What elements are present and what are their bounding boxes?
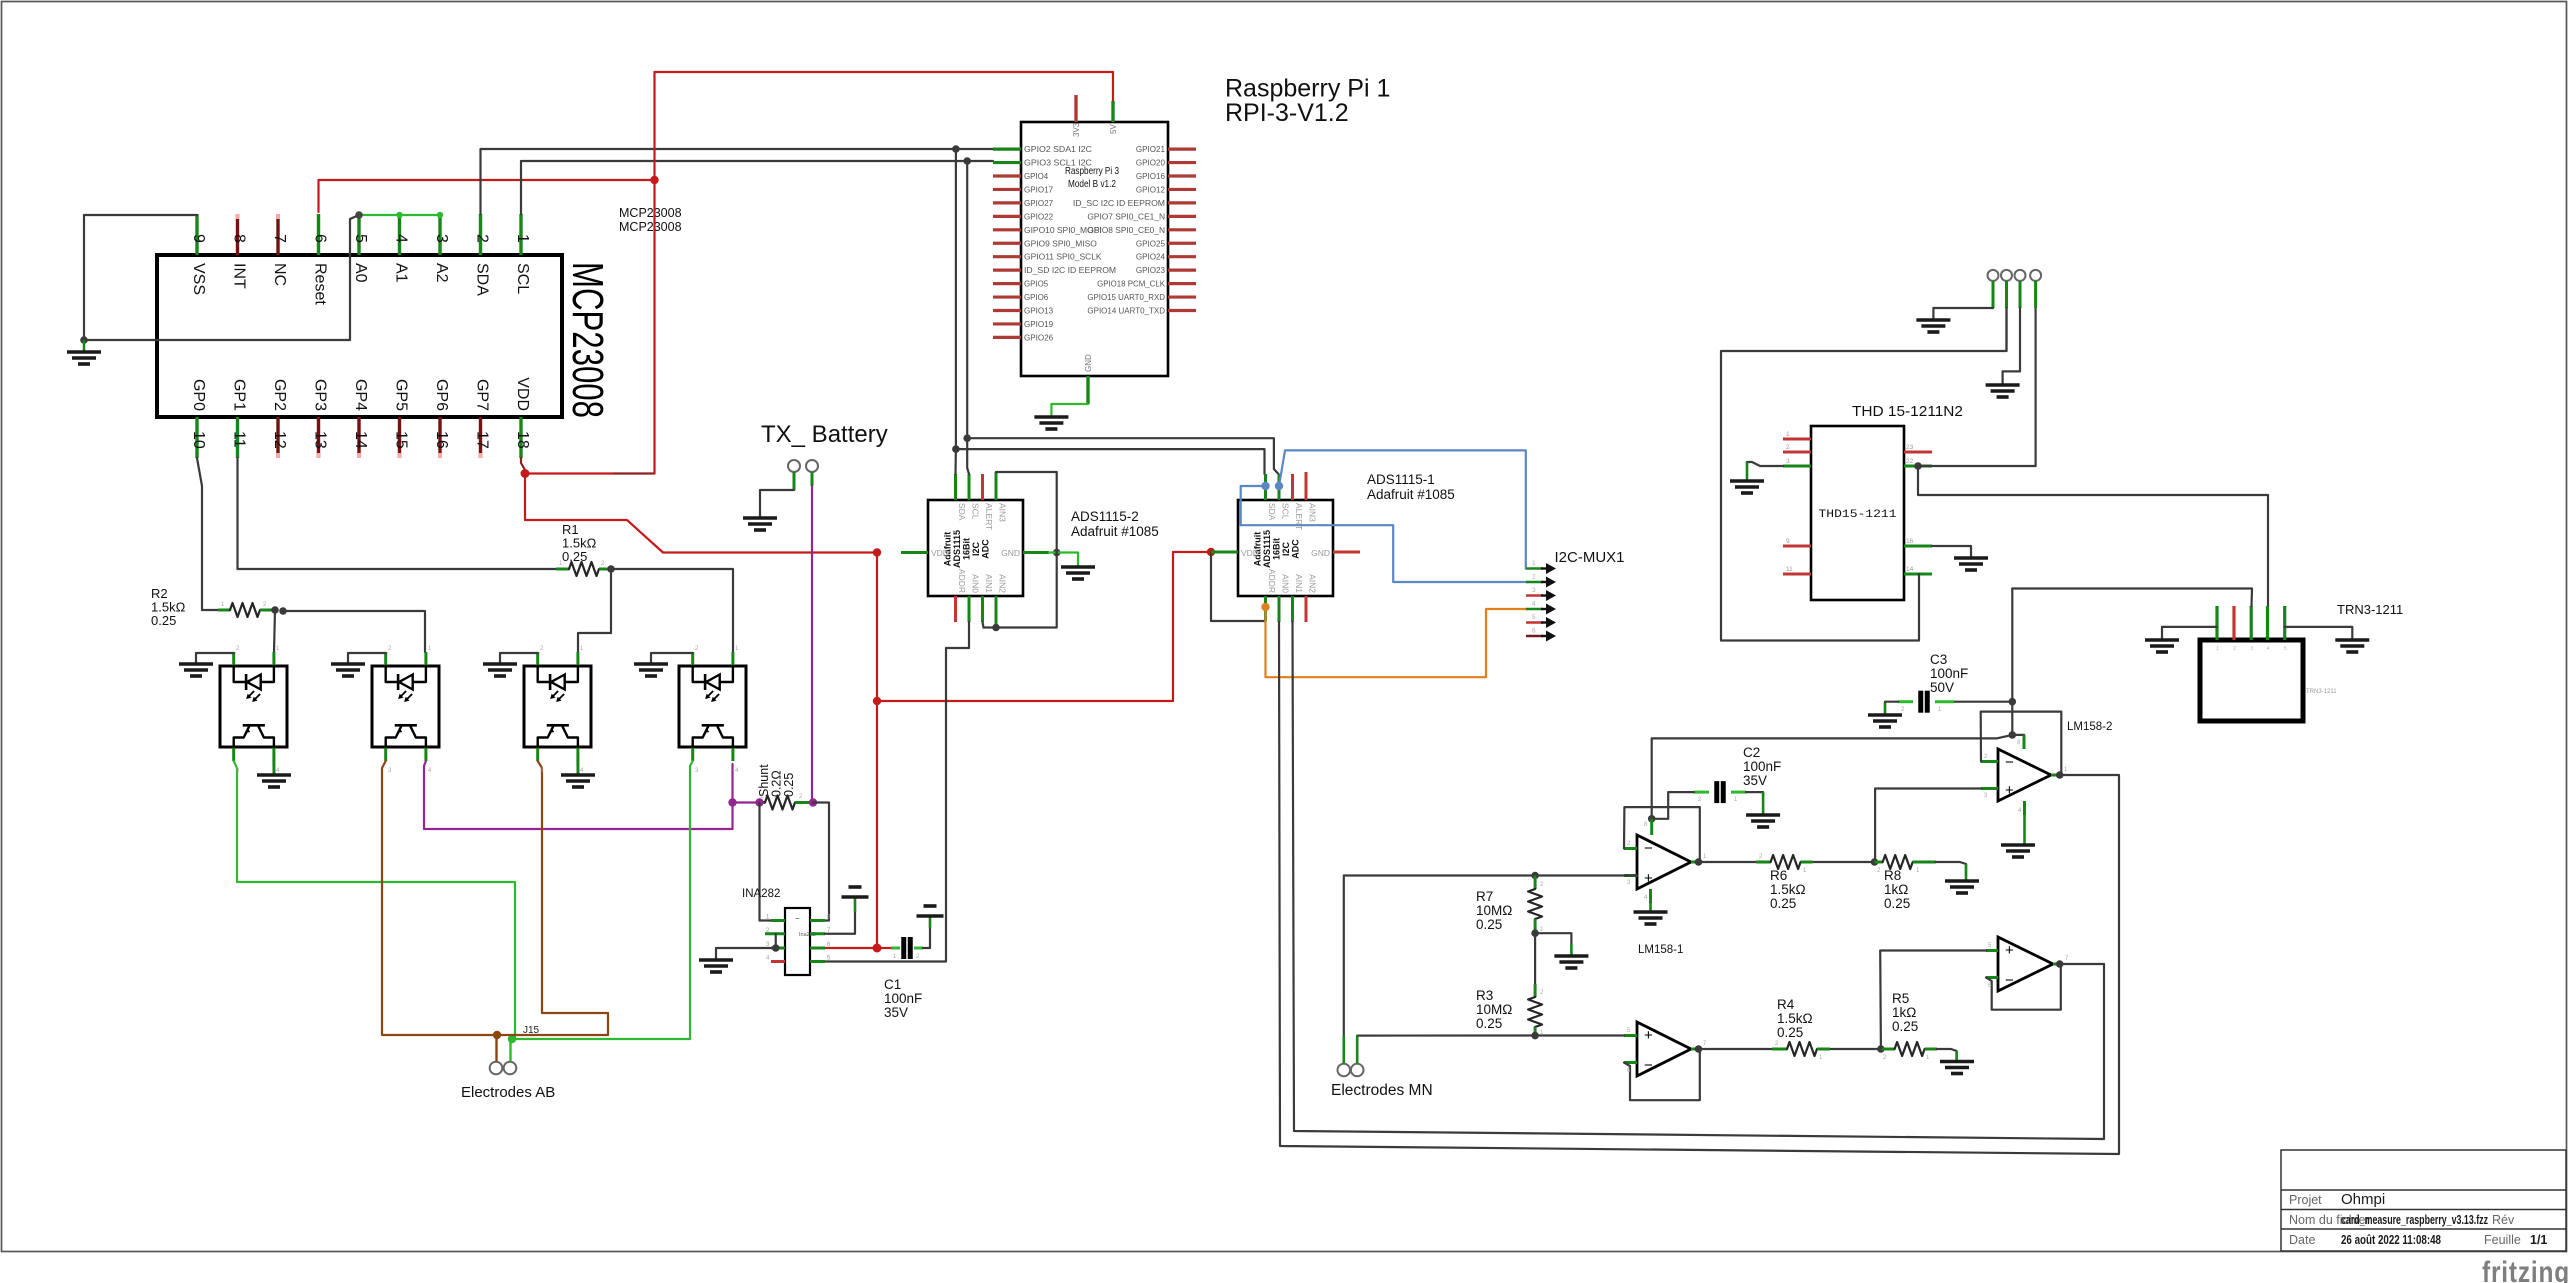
ground symbol C1: [917, 906, 944, 928]
IC Raspberry Pi 3 body: [1021, 122, 1168, 376]
op-amp LM158-1: [1637, 835, 1691, 889]
title Ohmpi: [2341, 1191, 2385, 1208]
wire U3C plus from R4R5: [1880, 951, 1986, 1050]
wire red main vertical: [876, 553, 878, 949]
wire AB circle1 stub: [495, 1035, 497, 1062]
ADS1115-1 label: [1367, 472, 1455, 502]
wire SDA vertical to I2C bus: [955, 149, 957, 449]
wire A0 pin5 to ground net: [84, 215, 359, 340]
LM158-1 label: [1638, 944, 1683, 956]
THD right pins: [1904, 444, 1932, 574]
capacitor C3: [1921, 691, 1928, 713]
U3C plus pin: [1986, 949, 1998, 952]
svg-text:+: +: [2005, 782, 2014, 799]
svg-text:GP6: GP6: [433, 379, 450, 411]
svg-text:6: 6: [1532, 628, 1536, 635]
ADS1115-1 pin labels: [1241, 503, 1330, 593]
svg-text:0.25: 0.25: [1476, 917, 1502, 932]
wire VSS pin9 to ground: [84, 215, 197, 340]
svg-text:1kΩ: 1kΩ: [1892, 1005, 1916, 1020]
wire LM158-2 out to loop: [2060, 774, 2119, 776]
U3C out pin: [2053, 963, 2062, 966]
svg-text:8: 8: [231, 234, 248, 243]
svg-text:1.5kΩ: 1.5kΩ: [1777, 1011, 1813, 1026]
svg-text:AIN2: AIN2: [1308, 574, 1318, 593]
junction R1 out: [607, 565, 615, 573]
svg-text:GPIO20: GPIO20: [1136, 159, 1166, 168]
resistor R1: [556, 562, 611, 576]
wire R2 to opto1: [274, 610, 275, 652]
wire R2 to opto2: [283, 611, 425, 652]
ground symbol ADS2: [1061, 567, 1095, 579]
wire C2 left to V+ node: [1652, 792, 1709, 819]
svg-text:1kΩ: 1kΩ: [1884, 882, 1908, 897]
svg-text:GPIO13: GPIO13: [1024, 307, 1054, 316]
svg-text:SCL: SCL: [971, 503, 981, 520]
junction C3 node: [2009, 698, 2017, 706]
resistor R5: [1881, 1042, 1937, 1056]
wire SDA bus to ADS1: [956, 449, 1265, 474]
MCP23008 top pins 1-9: [197, 214, 521, 255]
wire LM158-2 plus from R6R8: [1875, 789, 1981, 865]
svg-text:Electrodes MN: Electrodes MN: [1331, 1082, 1433, 1099]
svg-text:R7: R7: [1476, 889, 1493, 904]
wire circle1 to ground: [1933, 308, 1993, 319]
svg-text:GPIO11 SPI0_SCLK: GPIO11 SPI0_SCLK: [1024, 253, 1102, 262]
junction red at ADS1115-2 VDD: [873, 548, 881, 556]
wire THD pin14 loop: [1721, 287, 2007, 641]
tiny pin number labels: [221, 561, 2069, 1074]
svg-text:3: 3: [2250, 646, 2253, 652]
svg-text:4: 4: [393, 234, 410, 243]
svg-text:GPIO26: GPIO26: [1024, 333, 1054, 342]
wire ADS2 GND down to AIN1/AIN2: [984, 553, 1057, 628]
svg-text:26 août 2022 11:08:48: 26 août 2022 11:08:48: [2341, 1232, 2441, 1247]
svg-text:SDA: SDA: [1267, 503, 1277, 521]
I2C-MUX1 arrows: [1532, 560, 1556, 642]
svg-text:16Bit: 16Bit: [1272, 538, 1282, 560]
wire V+ vertical to TRN: [2011, 589, 2013, 702]
U3C minus pin: [1986, 976, 1998, 979]
svg-text:GP1: GP1: [231, 379, 248, 411]
svg-text:ADDR: ADDR: [1267, 569, 1277, 593]
wire TRN pin5 to ground: [2285, 627, 2353, 639]
svg-text:GPIO9 SPI0_MISO: GPIO9 SPI0_MISO: [1024, 239, 1097, 248]
svg-text:GP5: GP5: [393, 379, 410, 411]
ground symbol RPi: [1034, 417, 1068, 429]
resistor Shunt: [760, 796, 811, 810]
svg-text:GPIO8 SPI0_CE0_N: GPIO8 SPI0_CE0_N: [1087, 226, 1165, 235]
svg-text:Ohmpi: Ohmpi: [2341, 1191, 2385, 1208]
ground symbol R5: [1940, 1062, 1974, 1074]
svg-text:card_measure_raspberry_v3.13.f: card_measure_raspberry_v3.13.fzz: [2341, 1212, 2488, 1227]
connector RX circle2: [2001, 270, 2012, 281]
svg-text:−: −: [2005, 754, 2014, 771]
wire R6 to node: [1813, 861, 1875, 863]
svg-text:GND: GND: [1084, 354, 1093, 372]
wire V+ down to opamps: [2011, 702, 2013, 735]
wire brown opto2 to AB: [382, 761, 497, 1035]
svg-text:ADS1115-1: ADS1115-1: [1367, 472, 1435, 487]
wire green stub ADS1 VDD: [1211, 551, 1238, 554]
RX connector stubs: [1993, 281, 2036, 308]
svg-text:J15: J15: [523, 1025, 540, 1036]
title Feuille: [2484, 1233, 2521, 1247]
ADS1115-1 SDA pin: [1264, 474, 1267, 500]
svg-text:GP2: GP2: [271, 379, 288, 411]
svg-text:GP7: GP7: [474, 379, 491, 411]
svg-text:−: −: [795, 914, 800, 923]
junction orange ADDR: [1261, 603, 1269, 611]
junction blue SCL: [1275, 482, 1283, 490]
svg-text:−: −: [2005, 972, 2014, 989]
J15 label: [523, 1025, 540, 1036]
svg-text:9: 9: [190, 234, 207, 243]
junction shunt purple feed: [728, 798, 736, 806]
wire R7 bottom to ground: [1535, 933, 1571, 955]
svg-text:I2C-MUX1: I2C-MUX1: [1555, 549, 1625, 566]
ground symbol left of MCP: [67, 340, 101, 364]
R7 labels: [1476, 889, 1512, 932]
wire VDD pin18 to node: [521, 458, 525, 470]
wire RPi GND to ground: [1051, 404, 1088, 417]
junction VSS/A0 ground node: [80, 336, 88, 344]
svg-text:GPIO6: GPIO6: [1024, 293, 1049, 302]
svg-text:ALERT: ALERT: [984, 503, 994, 530]
op-amp LM158-2: [1998, 749, 2051, 801]
wire ADS2 AIN3 loop: [996, 472, 1057, 553]
ADS1115-2 ALERT pin: [981, 474, 984, 500]
wire INA282 pin2-pin3 tie: [775, 934, 777, 948]
MCP23008 bottom pin labels: [190, 377, 531, 411]
LM158-2 out pin: [2051, 774, 2062, 777]
Raspberry Pi title big: [1225, 75, 1390, 128]
ADS1115-2 VDD pin: [901, 551, 928, 554]
junction THD out: [1914, 462, 1922, 470]
svg-text:5: 5: [352, 234, 369, 243]
svg-text:6: 6: [312, 234, 329, 243]
resistor R4: [1772, 1042, 1830, 1056]
svg-text:GPIO19: GPIO19: [1024, 320, 1054, 329]
wire R8 to ground: [1936, 862, 1966, 880]
Raspberry Pi 3V3 pin: [1072, 95, 1081, 137]
TRN3-1211 pin numbers: [2216, 646, 2287, 652]
svg-text:1.5kΩ: 1.5kΩ: [1770, 882, 1806, 897]
wire brown AB to opto3: [497, 761, 608, 1035]
svg-text:GPIO22: GPIO22: [1024, 212, 1054, 221]
svg-text:A1: A1: [393, 263, 410, 283]
svg-text:22: 22: [1906, 458, 1914, 465]
wire SDA into ADS2: [954, 449, 957, 474]
svg-text:A0: A0: [352, 263, 369, 283]
LM158-2 Vminus pin: [2023, 801, 2026, 815]
svg-text:GP3: GP3: [312, 379, 329, 411]
MN circle stubs: [1344, 1036, 1357, 1064]
wire purple TX_Battery to shunt: [811, 486, 813, 803]
wire circle2 down: [2005, 308, 2007, 351]
optocoupler OC3: [524, 652, 591, 761]
connector RX circle1: [1988, 270, 1999, 281]
ADS1115-1 ADDR pin: [1264, 596, 1267, 621]
junction shunt right: [809, 798, 817, 806]
LM158-2 plus pin: [1981, 787, 1998, 790]
Raspberry Pi right pin labels: [1073, 145, 1166, 315]
junction V+ node: [2009, 731, 2017, 739]
wire LM158-1 out to R6: [1699, 861, 1757, 863]
svg-text:2: 2: [1786, 444, 1790, 451]
svg-text:GPIO16: GPIO16: [1136, 172, 1166, 181]
LM158-1 Vminus pin: [1649, 889, 1652, 903]
svg-text:Adafruit #1085: Adafruit #1085: [1071, 524, 1159, 539]
svg-text:0.25: 0.25: [782, 773, 796, 797]
junction VDD pin18 node: [521, 469, 530, 478]
wire V+ to LM158-1: [1652, 735, 2013, 819]
resistor R3: [1528, 984, 1542, 1036]
ADS1115-1 AIN1 pin: [1291, 596, 1294, 622]
svg-text:GPIO5: GPIO5: [1024, 280, 1049, 289]
wire ADS2 GND to ground: [1049, 553, 1078, 568]
svg-text:3: 3: [433, 234, 450, 243]
wire U3C feedback: [1986, 964, 2061, 1010]
svg-text:GPIO25: GPIO25: [1136, 239, 1166, 248]
svg-text:Projet: Projet: [2289, 1193, 2322, 1207]
wire green opto1 to J15: [234, 761, 515, 1039]
svg-text:fritzing: fritzing: [2482, 1256, 2570, 1283]
junction LM158-1 V+ node: [1648, 815, 1656, 823]
wire INA282 pin7 to ground: [825, 897, 855, 934]
svg-text:C3: C3: [1930, 652, 1947, 667]
wire LM158-1 plus line: [1344, 876, 1637, 1036]
svg-text:AIN0: AIN0: [971, 574, 981, 593]
R8 labels: [1884, 868, 1910, 911]
ADS1115-2 GND pin: [1023, 551, 1049, 554]
svg-text:16: 16: [433, 431, 450, 449]
svg-text:+: +: [1644, 870, 1653, 887]
svg-text:SCL: SCL: [514, 263, 531, 294]
svg-text:ID_SC I2C ID EEPROM: ID_SC I2C ID EEPROM: [1073, 199, 1165, 208]
wire GP1 to R1: [238, 458, 557, 569]
svg-text:11: 11: [1786, 566, 1793, 573]
svg-text:VSS: VSS: [190, 263, 207, 295]
R2 labels: [151, 586, 186, 628]
svg-text:Model B v1.2: Model B v1.2: [1068, 178, 1116, 190]
ground symbol LM158-1: [1634, 912, 1668, 924]
svg-text:AIN2: AIN2: [998, 574, 1008, 593]
svg-text:1: 1: [1532, 560, 1536, 567]
svg-text:C1: C1: [884, 977, 901, 992]
svg-text:GND: GND: [1001, 548, 1020, 558]
ground symbol opto1: [179, 664, 213, 676]
wire red C1 link: [877, 947, 900, 949]
wire opto3 anode gnd: [500, 653, 538, 664]
wire circle3 to ground: [2003, 308, 2020, 384]
svg-text:GPIO18 PCM_CLK: GPIO18 PCM_CLK: [1097, 280, 1165, 289]
svg-text:MCP23008: MCP23008: [563, 262, 612, 418]
svg-text:GP4: GP4: [352, 379, 369, 411]
svg-text:I2C: I2C: [971, 542, 981, 557]
svg-text:SCL: SCL: [1281, 503, 1291, 520]
THD title: [1852, 404, 1963, 420]
svg-text:GPIO3 SCL1 I2C: GPIO3 SCL1 I2C: [1024, 159, 1092, 168]
svg-text:Feuille: Feuille: [2484, 1233, 2521, 1247]
IC INA282 body: [785, 908, 810, 975]
ground symbol THD pin16: [1954, 558, 1988, 570]
wire LM158-2 Vminus gnd: [2023, 815, 2026, 844]
Shunt labels: [757, 764, 796, 797]
wire green J15 to opto4: [512, 761, 693, 1039]
Electrodes AB label: [461, 1084, 555, 1101]
wire opto1 anode gnd: [196, 653, 234, 664]
svg-text:VDD: VDD: [931, 548, 949, 558]
ground symbol INA282 left: [699, 960, 733, 972]
ADS1115-1 AIN0 pin: [1278, 596, 1281, 622]
wire AB circle2 stub: [509, 1039, 511, 1062]
svg-text:10MΩ: 10MΩ: [1476, 903, 1512, 918]
wire ADS2 AIN1 jog: [983, 622, 984, 628]
svg-text:9: 9: [1786, 538, 1790, 545]
svg-text:INA282: INA282: [742, 888, 780, 900]
svg-text:C2: C2: [1743, 745, 1760, 760]
junction R7 top: [1531, 872, 1539, 880]
Raspberry Pi GND pin: [1084, 354, 1093, 404]
LM158-2 minus pin: [1981, 760, 1998, 763]
MCP23008 bottom pin numbers: [190, 431, 531, 449]
ground symbol TX_Battery: [743, 518, 777, 530]
junction U3C out: [2056, 960, 2064, 968]
MCP23008 bottom pins 10-18: [197, 417, 521, 458]
resistor R7: [1528, 876, 1542, 934]
wire ADS2 GND node: [1053, 549, 1061, 557]
R6 labels: [1770, 868, 1806, 911]
wire orange ADDR to mux: [1266, 607, 1529, 677]
U3B out pin: [1691, 1048, 1700, 1051]
junction SCL bus split: [963, 434, 971, 442]
svg-text:SDA: SDA: [957, 503, 967, 521]
ground symbol opto4: [634, 664, 668, 676]
ground symbol TRN right: [2335, 640, 2369, 652]
svg-text:AIN1: AIN1: [1294, 574, 1304, 593]
wire blue SCL to mux: [1279, 450, 1526, 568]
svg-text:ADDR: ADDR: [957, 569, 967, 593]
connector Electrodes MN circle1: [1338, 1064, 1351, 1077]
svg-text:0.25: 0.25: [562, 549, 587, 564]
svg-text:1/1: 1/1: [2530, 1233, 2547, 1247]
svg-text:GPIO17: GPIO17: [1024, 185, 1054, 194]
svg-text:0.25: 0.25: [1476, 1016, 1502, 1031]
svg-text:Date: Date: [2289, 1233, 2315, 1247]
TRN3-1211 top pins: [2217, 606, 2285, 640]
svg-text:AIN3: AIN3: [1308, 503, 1318, 522]
title Rev: [2492, 1213, 2515, 1227]
capacitor C2: [1717, 781, 1724, 803]
wire ADS2 AIN0 to INA282 out: [825, 622, 969, 962]
optocoupler OC2: [372, 652, 439, 761]
svg-text:AIN1: AIN1: [984, 574, 994, 593]
svg-text:GND: GND: [1311, 548, 1330, 558]
svg-text:GPIO14 UART0_TXD: GPIO14 UART0_TXD: [1087, 307, 1165, 316]
IC ADS1115-2 body: [928, 500, 1023, 596]
svg-text:2: 2: [2233, 646, 2236, 652]
wire red rail to ADS1115-1: [877, 552, 1211, 701]
U3B minus pin: [1624, 1061, 1637, 1064]
INA282 pins: [765, 915, 831, 962]
svg-text:0.25: 0.25: [1884, 896, 1910, 911]
svg-text:GPIO4: GPIO4: [1024, 172, 1049, 181]
C2 labels: [1743, 745, 1781, 788]
svg-text:−: −: [1644, 840, 1653, 857]
ADS1115-2 SCL pin: [968, 474, 971, 500]
title filename: [2341, 1212, 2488, 1227]
svg-text:ADC: ADC: [1291, 539, 1301, 559]
svg-text:NC: NC: [271, 263, 288, 286]
connector RX circle3: [2015, 270, 2026, 281]
wire TX_Battery to ground: [760, 490, 794, 516]
TX_Battery label: [761, 421, 888, 448]
wire blue SDA to mux: [1241, 486, 1528, 582]
junction R2 out b: [279, 607, 287, 615]
svg-text:17: 17: [474, 431, 491, 449]
Electrodes MN label: [1331, 1082, 1433, 1099]
svg-text:Reset: Reset: [312, 263, 329, 305]
Raspberry Pi 5V pin: [1109, 101, 1118, 134]
junction R6 R8 node: [1871, 858, 1879, 866]
ground symbol TRN left: [2145, 640, 2179, 652]
ADS1115-1 GND pin: [1333, 551, 1360, 554]
svg-text:16Bit: 16Bit: [962, 538, 972, 560]
junction AB brown: [493, 1031, 501, 1039]
svg-text:LM158-1: LM158-1: [1638, 944, 1683, 956]
svg-text:7: 7: [271, 234, 288, 243]
title Date: [2289, 1233, 2315, 1247]
transformer TRN3-1211 body: [2200, 640, 2303, 721]
svg-text:RPI-3-V1.2: RPI-3-V1.2: [1225, 99, 1349, 127]
op-amp U3B: [1637, 1022, 1691, 1076]
junction red C1 node: [873, 944, 882, 953]
svg-text:12: 12: [271, 431, 288, 449]
ADS1115-2 AIN0 pin: [968, 596, 971, 622]
IC ADS1115-1 body: [1238, 500, 1333, 596]
svg-text:5: 5: [2284, 646, 2287, 652]
LM158-1 V+ stub: [1650, 819, 1653, 835]
Raspberry Pi left pin labels: [1024, 145, 1116, 342]
svg-text:ID_SD I2C ID EEPROM: ID_SD I2C ID EEPROM: [1024, 266, 1116, 275]
DC-DC THD15-1211 body: [1811, 426, 1904, 600]
Raspberry Pi inner title: [1065, 165, 1119, 190]
MCP23008 big part label: [563, 262, 612, 418]
ground symbol circle1: [1916, 320, 1950, 332]
title block row lines: [2281, 1190, 2566, 1229]
ground symbol circle3: [1986, 385, 2020, 397]
svg-text:GPIO7 SPI0_CE1_N: GPIO7 SPI0_CE1_N: [1087, 212, 1165, 221]
svg-text:1: 1: [1786, 431, 1790, 438]
wire red pin18 node to riser: [525, 472, 655, 474]
svg-text:AIN3: AIN3: [998, 503, 1008, 522]
svg-text:GPIO24: GPIO24: [1136, 253, 1166, 262]
wire SCL pin1 to RPi GPIO3: [521, 161, 993, 214]
ADS1115-2 SDA pin: [954, 474, 957, 500]
svg-text:Electrodes AB: Electrodes AB: [461, 1084, 555, 1101]
R3 labels: [1476, 988, 1512, 1031]
ground symbol R7: [1554, 956, 1588, 968]
junction J15 green: [508, 1035, 516, 1043]
svg-text:0.25: 0.25: [1770, 896, 1796, 911]
wire opto2 anode gnd: [348, 653, 386, 664]
THD left pins: [1783, 431, 1811, 574]
svg-text:SDA: SDA: [474, 263, 491, 296]
svg-text:0.25: 0.25: [1777, 1025, 1803, 1040]
svg-text:TRN3-1211: TRN3-1211: [2306, 689, 2337, 695]
Raspberry Pi right pins: [1168, 149, 1196, 310]
